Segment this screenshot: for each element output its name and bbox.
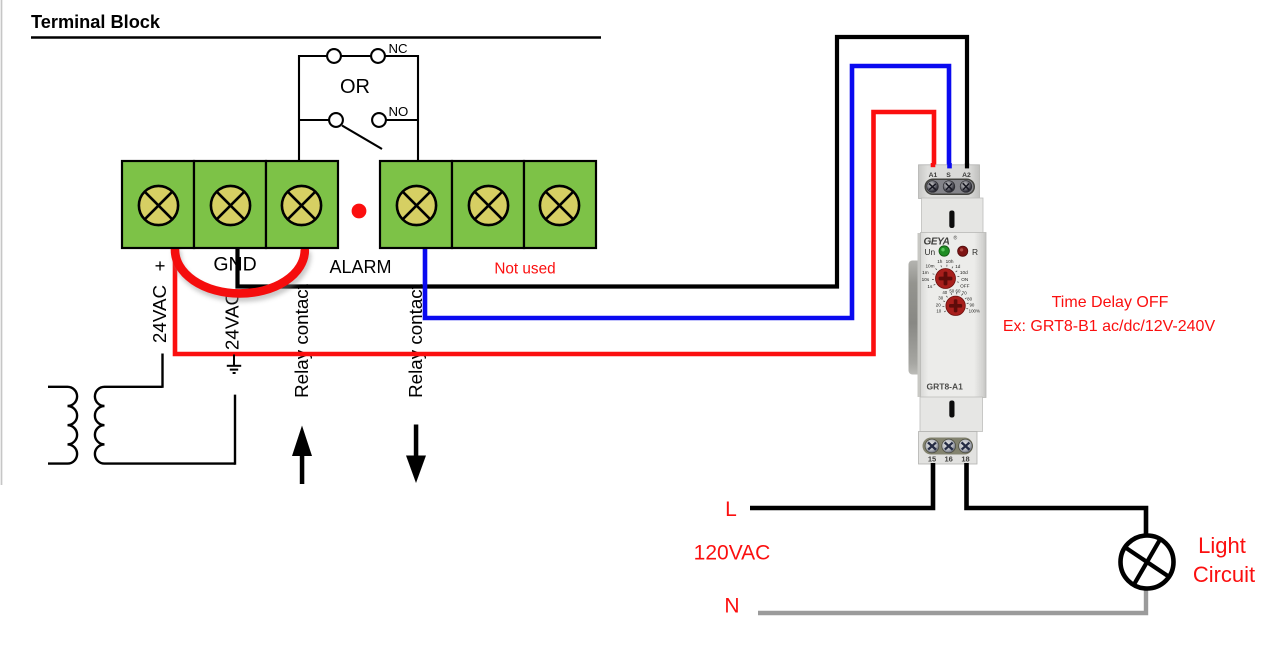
relay bottom terminal section: [919, 432, 978, 465]
switch arm (open): [342, 126, 382, 150]
svg-text:16: 16: [945, 455, 953, 464]
svg-text:90: 90: [969, 302, 974, 307]
svg-text:70: 70: [962, 290, 967, 295]
svg-text:S: S: [946, 172, 951, 179]
relay top terminal section: [919, 165, 980, 199]
terminal cell 4: [380, 161, 452, 248]
lamp light circuit: [1121, 536, 1174, 589]
terminal block left group: [122, 161, 596, 248]
wire L to relay terminal 15: [750, 463, 933, 508]
svg-text:120VAC: 120VAC: [694, 542, 771, 565]
svg-text:OR: OR: [340, 76, 370, 98]
screw 15: [925, 439, 939, 453]
svg-text:+: +: [155, 255, 166, 276]
svg-text:®: ®: [954, 235, 958, 242]
screw 2: [211, 186, 250, 225]
top screw recess: [925, 179, 976, 196]
svg-text:10h: 10h: [946, 259, 954, 264]
svg-text:100%: 100%: [969, 308, 980, 313]
terminal cell 2: [194, 161, 266, 248]
svg-text:Circuit: Circuit: [1193, 562, 1255, 587]
svg-text:10s: 10s: [922, 277, 930, 282]
wire secondary top lead: [161, 354, 163, 388]
svg-text:40: 40: [942, 290, 947, 295]
wire NO right segment: [386, 119, 418, 121]
terminal screws: [139, 186, 579, 225]
timer relay GRT8-A1: [909, 163, 987, 464]
svg-text:1d: 1d: [955, 264, 961, 269]
upper slot: [949, 211, 954, 229]
wire tip red at A1: [931, 163, 936, 167]
wire NO left segment: [299, 119, 329, 121]
svg-text:ALARM: ALARM: [329, 257, 391, 277]
svg-text:L: L: [725, 498, 737, 521]
svg-text:Light: Light: [1198, 533, 1246, 558]
screw 18: [959, 439, 973, 453]
terminal cell 1: [122, 161, 194, 248]
svg-text:GND: GND: [213, 254, 256, 276]
wire left vertical to terminal 3: [298, 55, 300, 161]
transformer secondary coil: [95, 387, 235, 464]
svg-text:OFF: OFF: [960, 283, 970, 288]
svg-text:30: 30: [938, 295, 943, 300]
blue wire terminal4 to relay S: [425, 66, 949, 318]
left page border line: [1, 0, 3, 485]
contact circle NO right: [372, 113, 386, 127]
LED green: [939, 246, 949, 256]
screw A1: [927, 181, 939, 193]
svg-text:ON: ON: [961, 277, 968, 282]
contact circle NC left: [327, 49, 341, 63]
svg-text:1m: 1m: [922, 270, 929, 275]
screw A2: [960, 181, 972, 193]
svg-text:80: 80: [967, 296, 972, 301]
transformer primary coil: [48, 387, 77, 464]
relay contact selector circuit: [299, 49, 418, 161]
wire NC link between contacts: [340, 55, 372, 57]
wire secondary bottom lead: [234, 395, 236, 465]
relay upper mid section: [922, 198, 984, 233]
svg-text:N: N: [724, 595, 739, 618]
svg-text:10: 10: [936, 308, 941, 313]
dial 1 time range: [922, 259, 970, 289]
screw 6: [540, 186, 579, 225]
screw 1: [139, 186, 178, 225]
arrow down (relay contact released): [406, 425, 426, 484]
terminal cell 6: [524, 161, 596, 248]
wire right vertical to terminal 4: [417, 55, 419, 161]
svg-text:GRT8-A1: GRT8-A1: [927, 382, 964, 392]
red jumper arc shadow: [177, 254, 307, 298]
screw 4: [397, 186, 436, 225]
svg-text:18: 18: [961, 455, 969, 464]
title underline: [31, 36, 601, 39]
black wire GND to relay A2: [238, 37, 968, 287]
svg-text:NO: NO: [389, 104, 409, 119]
svg-text:Relay contact: Relay contact: [291, 283, 312, 398]
wire NC right segment: [385, 55, 418, 57]
svg-text:15: 15: [928, 455, 936, 464]
lower slot: [949, 401, 954, 418]
wire tip blue at S: [947, 163, 952, 168]
svg-text:Time Delay OFF: Time Delay OFF: [1052, 294, 1169, 311]
svg-text:1h: 1h: [937, 259, 943, 264]
svg-text:10d: 10d: [960, 270, 968, 275]
contact circle NC right: [371, 49, 385, 63]
svg-text:10m: 10m: [925, 264, 934, 269]
LED red: [958, 246, 968, 256]
svg-text:Ex: GRT8-B1 ac/dc/12V-240V: Ex: GRT8-B1 ac/dc/12V-240V: [1003, 318, 1216, 335]
red wire terminal1 to relay A1: [175, 112, 934, 354]
contact circle NO left: [329, 113, 343, 127]
svg-text:A1: A1: [929, 172, 938, 179]
screw 5: [469, 186, 508, 225]
ground symbol: [227, 355, 241, 374]
terminal cell 5: [452, 161, 524, 248]
relay main face: [921, 233, 987, 398]
svg-text:NC: NC: [389, 41, 409, 56]
svg-text:A2: A2: [962, 172, 971, 179]
svg-text:60: 60: [956, 288, 961, 293]
screw 16: [942, 439, 956, 453]
wire tip black at A2: [965, 163, 969, 168]
relay lower mid section: [920, 397, 983, 432]
wire N (neutral, grey): [758, 589, 1146, 613]
red indicator dot: [352, 204, 367, 219]
bottom screw recess: [923, 438, 974, 455]
svg-text:Terminal Block: Terminal Block: [31, 12, 161, 32]
svg-text:24VAC: 24VAC: [149, 285, 170, 343]
svg-text:20: 20: [936, 302, 941, 307]
relay left side column: [918, 233, 924, 397]
svg-text:50: 50: [949, 288, 954, 293]
screw S: [943, 181, 955, 193]
dial 2 percentage: [936, 288, 980, 315]
wire NC left segment: [299, 55, 327, 57]
svg-text:1s: 1s: [927, 284, 933, 289]
terminal cell 3: [266, 161, 338, 248]
screw 3: [282, 186, 321, 225]
arrow up (relay contact energized): [292, 426, 312, 485]
svg-text:Un: Un: [925, 247, 936, 257]
svg-text:Not used: Not used: [494, 261, 555, 278]
relay left DIN cylinder: [909, 261, 922, 375]
wire relay terminal 18 to lamp: [967, 463, 1147, 536]
red jumper arc terminal1-terminal3: [175, 250, 305, 294]
svg-text:R: R: [972, 247, 978, 257]
